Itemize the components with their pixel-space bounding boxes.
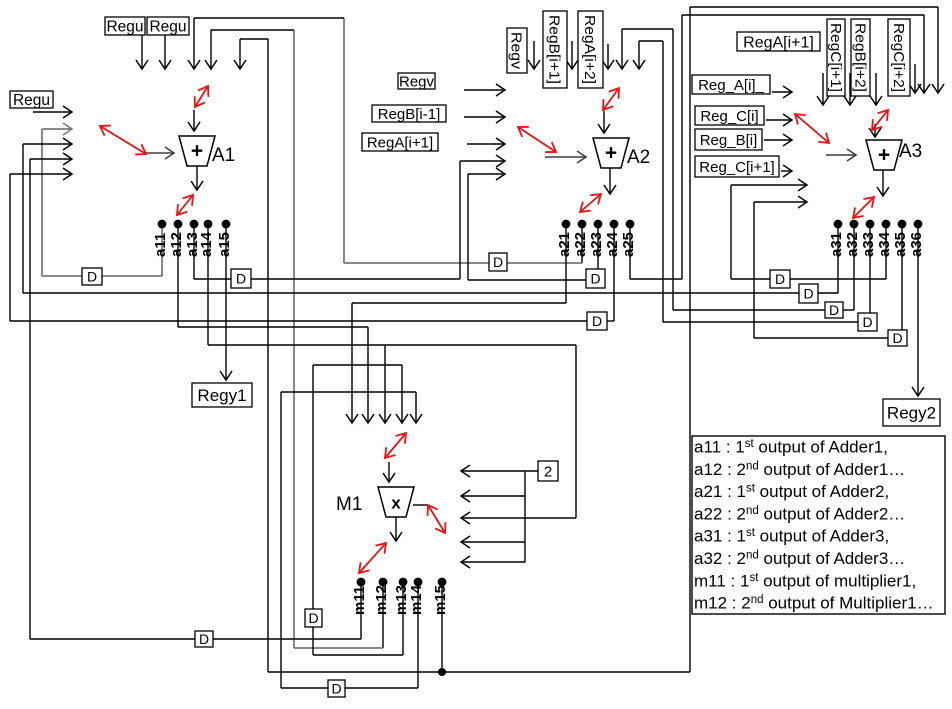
node m14 (408, 578, 425, 615)
wire A2 left input 3 from RegA[i+1] (467, 143, 505, 145)
node m11 (351, 578, 368, 615)
node a15 (216, 220, 233, 257)
wire A3 top stub input 1 from RegC[i+1] (822, 73, 824, 105)
svg-text:RegB[i+2]: RegB[i+2] (851, 23, 867, 92)
svg-text:a11 : 1st output of Adder1,: a11 : 1st output of Adder1, (694, 438, 888, 457)
node a14 (198, 220, 215, 257)
wire M1 top center input arrow (388, 462, 390, 482)
svg-text:D: D (829, 302, 839, 318)
svg-text:Regy2: Regy2 (887, 404, 936, 423)
wire net a12 to M1 top input 2 (178, 224, 368, 423)
register label Regu 2 (147, 17, 189, 35)
svg-text:a22 : 2nd output of Adder2…: a22 : 2nd output of Adder2… (694, 504, 905, 523)
wire A3 top stub input 2 from RegB[i+2] (849, 73, 851, 105)
svg-text:D: D (862, 314, 872, 330)
svg-text:a15: a15 (216, 232, 233, 257)
wire A3 main left input arrow (826, 154, 856, 156)
wire A2 top stub input 3 (607, 44, 609, 69)
svg-text:D: D (592, 313, 602, 329)
node a21 (556, 220, 573, 257)
wire net a24 via delay to A1 left input 5 (10, 174, 614, 321)
svg-text:D: D (331, 681, 341, 697)
svg-text:Regu: Regu (13, 92, 50, 109)
wire a36 to Regy2 (917, 224, 919, 396)
register label Reg_C[i] (695, 106, 764, 125)
svg-text:D: D (590, 271, 600, 287)
node a11 (152, 220, 169, 257)
wire A3 top center input arrow (874, 124, 876, 137)
wire net m12 to adder A1 top input 4 (211, 30, 383, 648)
register label RegB[i+1] vertical (543, 11, 567, 88)
svg-text:+: + (605, 142, 617, 165)
wire A2 output arrow (609, 168, 611, 194)
svg-text:a25: a25 (620, 232, 637, 257)
output register Regy2 (883, 399, 940, 426)
delay D m14 (328, 680, 345, 697)
wire Regu box 2 arrow into A1 (164, 35, 166, 69)
svg-text:+: + (191, 140, 203, 163)
wire M1 side input 4 (461, 541, 525, 543)
svg-text:Reg_C[i]: Reg_C[i] (700, 108, 758, 125)
delay D m13 (305, 609, 322, 627)
wire A3 left input 1 from Reg_A[i] (772, 91, 792, 93)
register label Reg_C[i+1] (695, 156, 779, 177)
adder U A3 (866, 140, 922, 170)
svg-text:x: x (391, 494, 401, 513)
wire net a21 to M1 top input 1 (352, 224, 566, 423)
svg-text:a31 : 1st output of Adder3,: a31 : 1st output of Adder3, (694, 527, 889, 546)
wire A3 left input 3 from Reg_B[i] (764, 139, 792, 141)
output register Regy1 (192, 383, 252, 407)
register label Regv vertical (507, 28, 527, 73)
wire A2 top stub input 1 (533, 41, 535, 69)
legend box (692, 436, 945, 614)
svg-text:RegA[i+1]: RegA[i+1] (743, 34, 814, 51)
red elastic arrow left of A3 (795, 114, 829, 143)
svg-text:Regu: Regu (149, 19, 186, 36)
delay D a24 (587, 312, 607, 330)
svg-text:RegA[i+2]: RegA[i+2] (581, 15, 598, 84)
register label RegA[i+2] vertical (578, 11, 603, 88)
register label Regu 3 (10, 91, 53, 108)
svg-text:a36: a36 (908, 232, 925, 257)
register label Reg_B[i] (695, 129, 762, 150)
svg-text:RegA[i+1]: RegA[i+1] (367, 134, 433, 151)
red elastic arrow left of A1 (100, 126, 146, 154)
svg-text:a32: a32 (844, 232, 861, 257)
delay D a22 (489, 253, 507, 271)
constant value 2 (538, 461, 558, 481)
wire net a33 via delay to A2 top input 5 (639, 41, 870, 322)
wire A1 output arrow (196, 166, 198, 190)
register label RegA[i+1] top right (737, 32, 820, 51)
wire net a23 via delay to A2 left input 5 (468, 174, 598, 280)
red elastic arrow above A3 (872, 110, 888, 130)
wire A1 main left input arrow (146, 152, 174, 154)
svg-text:D: D (308, 610, 318, 626)
svg-text:a22: a22 (572, 232, 589, 257)
svg-text:A3: A3 (899, 141, 922, 162)
junction node m15 feedback (438, 668, 446, 676)
wire net m13 via delay to M1 top input 4 (313, 365, 403, 655)
svg-text:a11: a11 (152, 233, 169, 257)
node a24 (604, 220, 621, 257)
svg-text:D: D (892, 330, 902, 346)
svg-text:m15: m15 (432, 585, 449, 615)
node a12 (168, 220, 185, 257)
delay D a23 (586, 269, 605, 288)
register label RegC[i+2] vertical (888, 19, 910, 96)
svg-text:D: D (493, 254, 503, 270)
register label RegC[i+1] vertical (827, 19, 845, 96)
svg-text:a33: a33 (860, 232, 877, 257)
wire a15 to Regy1 (225, 224, 227, 380)
wire A2 top center input arrow (603, 111, 605, 133)
wire constant 2 to M1 side input 1 (461, 470, 538, 472)
delay D a11 (82, 268, 102, 285)
red elastic arrow below M1 (359, 543, 386, 573)
wire M1 right stub (413, 504, 428, 506)
svg-text:m11: m11 (351, 586, 368, 615)
red elastic arrow right of M1 (428, 505, 445, 533)
wire A2 top stub input 2 (571, 41, 573, 69)
wire net a11 via delay to A1 left input 2 (42, 129, 162, 276)
wire M1 side input 2 (461, 495, 525, 497)
svg-text:m12 : 2nd output of Multiplier: m12 : 2nd output of Multiplier1… (694, 594, 934, 613)
delay D a32 (825, 302, 843, 318)
svg-text:a12: a12 (168, 232, 185, 257)
svg-text:D: D (87, 269, 97, 285)
wire A2 left input 2 from RegB[i-1] (464, 116, 505, 118)
svg-text:Reg_A[i]_: Reg_A[i]_ (698, 77, 765, 94)
register label RegA[i+1] left (362, 133, 438, 151)
svg-text:a21: a21 (556, 232, 573, 257)
wire A3 top stub input 3 from RegC[i+2] (875, 73, 877, 105)
wire net a35 via delay to A3 left input 6 (754, 202, 902, 338)
wire net a22 to adder A1 top input 3 via delay (194, 18, 582, 263)
svg-text:Reg_B[i]: Reg_B[i] (700, 132, 758, 149)
svg-text:Regv: Regv (508, 32, 525, 70)
svg-text:a23: a23 (588, 232, 605, 257)
register label Reg_A[i]_ (692, 75, 770, 94)
svg-text:a34: a34 (876, 231, 893, 257)
node a32 (844, 220, 861, 257)
wire net m11 via delay to A1 left input 4 (30, 159, 361, 639)
svg-text:a31: a31 (828, 232, 845, 257)
wire M1 output arrow (395, 517, 397, 541)
svg-text:m12: m12 (373, 585, 390, 615)
wire net a25 to A3 top input 5 (630, 15, 924, 279)
svg-text:M1: M1 (336, 494, 362, 515)
wire net m14 via delay to M1 top input 5 (281, 392, 418, 688)
svg-text:2: 2 (544, 463, 552, 480)
wire constant 2 branch vertical (524, 471, 526, 562)
svg-text:a32 : 2nd output of Adder3…: a32 : 2nd output of Adder3… (694, 549, 905, 568)
delay D a33 (858, 313, 877, 331)
svg-text:+: + (878, 144, 890, 167)
svg-text:a35: a35 (892, 232, 909, 257)
red elastic arrow below A1 (177, 195, 193, 215)
red elastic arrow left of A2 (518, 127, 556, 152)
svg-text:D: D (803, 286, 813, 302)
adder U A1 (179, 136, 235, 166)
register label Regu 1 (105, 17, 145, 35)
register label RegB[i+2] vertical (851, 19, 870, 96)
svg-text:RegC[i+2]: RegC[i+2] (890, 23, 906, 92)
node m12 (373, 578, 390, 615)
svg-text:RegB[i-1]: RegB[i-1] (378, 106, 441, 123)
red elastic arrow above M1 (385, 433, 406, 458)
node a33 (860, 220, 877, 257)
svg-text:Regv: Regv (399, 73, 435, 90)
wire net a14 to M1 top input 3 and M1 side input 3 (208, 224, 576, 518)
wire A3 top stub input 4 (914, 64, 916, 93)
svg-text:Reg_C[i+1]: Reg_C[i+1] (699, 159, 774, 176)
wire A1 top center input arrow (193, 110, 195, 131)
delay D a31 (799, 284, 818, 303)
wire A1 left input 1 from Regu (33, 111, 72, 113)
svg-text:D: D (236, 271, 246, 287)
node a25 (620, 220, 637, 257)
svg-text:a12 : 2nd output of Adder1…: a12 : 2nd output of Adder1… (694, 460, 905, 479)
delay D a35 (888, 330, 907, 346)
register label Regv horizontal (398, 73, 435, 89)
adder U A2 (593, 138, 650, 168)
node a22 (572, 220, 589, 257)
svg-text:m14: m14 (408, 584, 425, 615)
wire A3 output arrow (882, 170, 884, 196)
wire net a31 via delay to A1 left input 3 (23, 144, 838, 293)
wire A2 left input 1 from Regv (464, 89, 505, 91)
node m13 (393, 578, 410, 615)
red elastic arrow above A2 (603, 88, 619, 110)
node m15 (432, 578, 449, 615)
delay D a13 (231, 269, 251, 288)
wire A3 left input 2 from Reg_C[i] (766, 119, 792, 121)
delay D a34 (770, 270, 790, 288)
node a31 (828, 220, 845, 257)
multiplier M1 (336, 487, 414, 517)
node a34 (876, 220, 893, 257)
svg-text:RegC[i+1]: RegC[i+1] (827, 23, 843, 92)
red elastic arrow above A1 (195, 86, 208, 107)
wire net a32 via delay to A2 top input 4 (622, 29, 854, 310)
wire net m15 junction to A1 top input 5 and A3 top input 6 (240, 7, 938, 672)
node a13 (184, 220, 201, 257)
svg-text:Regu: Regu (106, 19, 143, 36)
svg-text:Regy1: Regy1 (197, 386, 246, 405)
svg-text:A2: A2 (627, 147, 650, 168)
svg-text:A1: A1 (212, 145, 235, 166)
register label RegB[i-1] (372, 105, 446, 122)
node a23 (588, 220, 605, 257)
svg-text:RegB[i+1]: RegB[i+1] (546, 15, 563, 84)
wire A3 left input 4 from Reg_C[i+1] (781, 170, 792, 172)
svg-text:m11 : 1st output of multiplier: m11 : 1st output of multiplier1, (694, 571, 916, 590)
delay D m11 (195, 631, 213, 647)
wire M1 side input 5 (461, 561, 525, 563)
wire net a34 via delay to A3 left input 5 (731, 185, 886, 279)
svg-text:a14: a14 (198, 231, 215, 257)
node a35 (892, 220, 909, 257)
node a36 (908, 220, 925, 257)
svg-text:a21 : 1st output of Adder2,: a21 : 1st output of Adder2, (694, 482, 889, 501)
wire net a13 via delay to A2 left input 4 (194, 161, 505, 279)
svg-text:a24: a24 (604, 231, 621, 257)
wire Regu box 1 arrow into A1 (141, 35, 143, 69)
red elastic arrow below A2 (580, 194, 601, 212)
svg-text:D: D (199, 631, 209, 647)
svg-text:D: D (775, 271, 785, 287)
wire A2 main left input arrow (545, 156, 586, 158)
red elastic arrow below A3 (853, 197, 874, 218)
